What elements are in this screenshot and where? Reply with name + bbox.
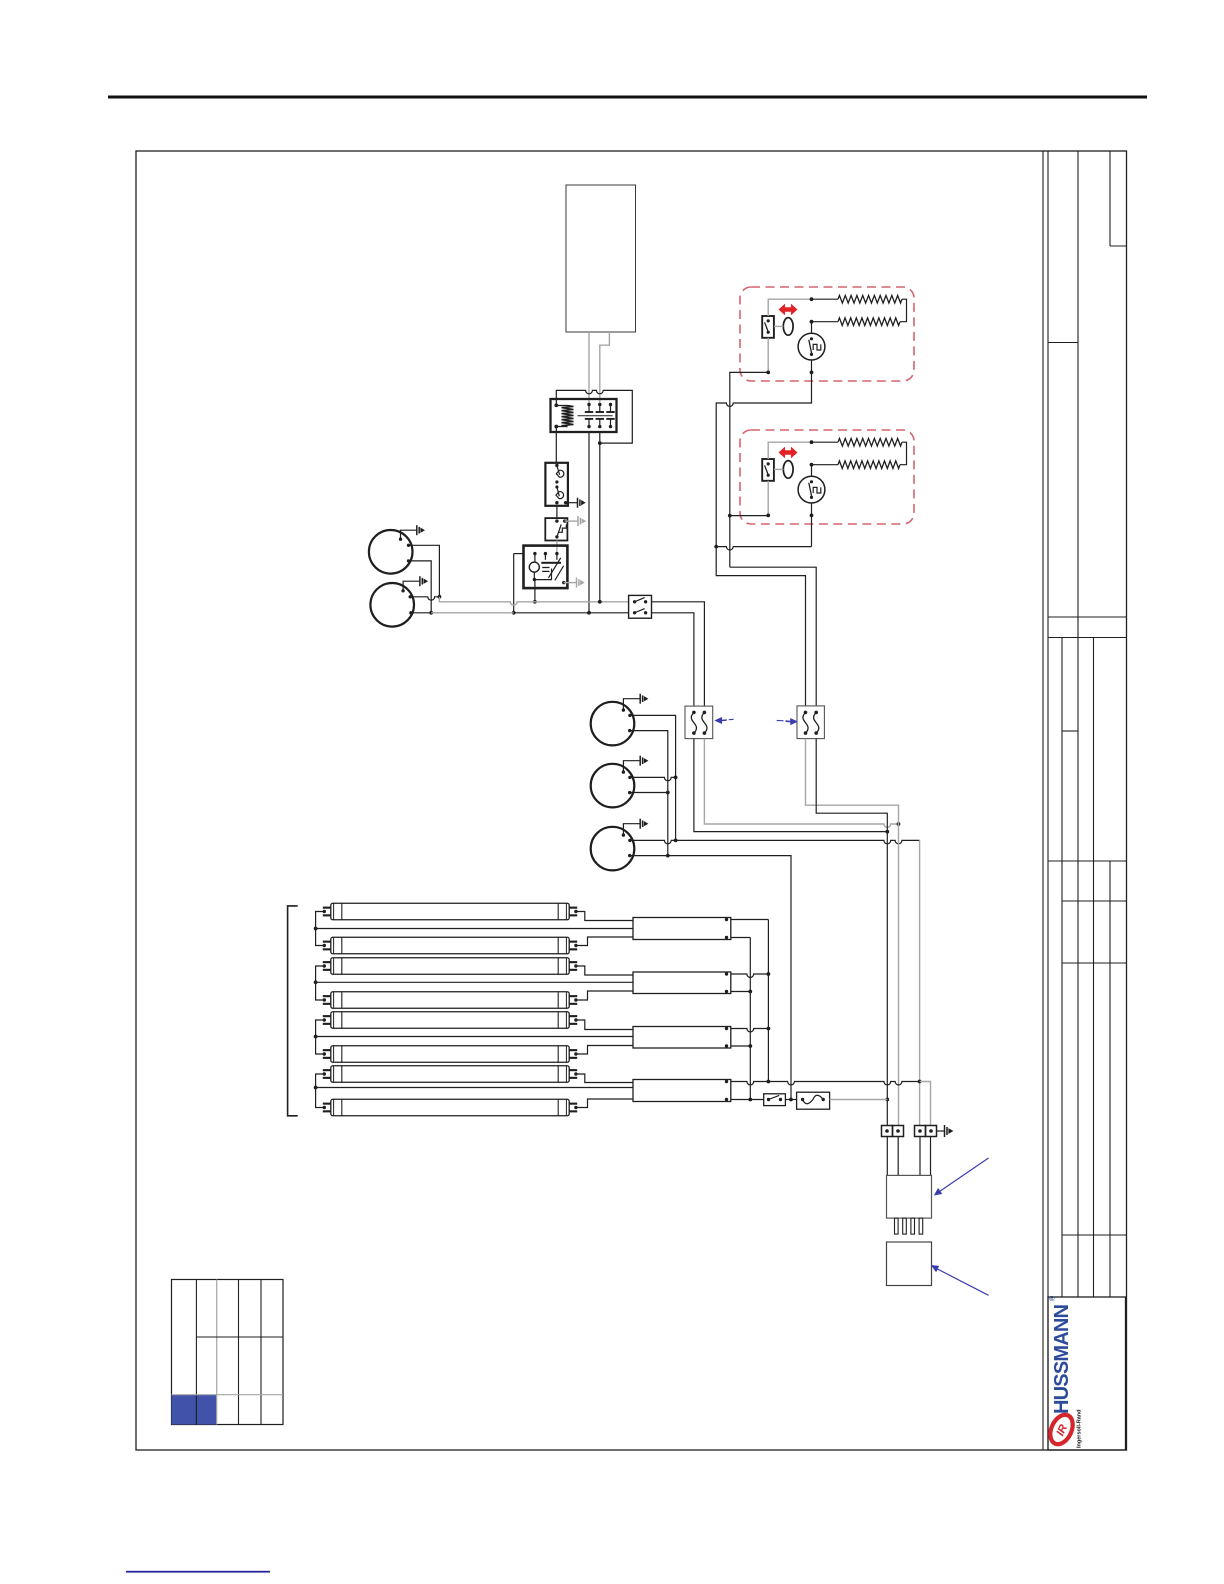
trunk wire L2 to terminal strip (gray) (898, 824, 900, 1126)
wire lamp T2 to ballast B1 (576, 937, 633, 946)
wire heater 2 to timer top 1 (812, 321, 839, 323)
ballast B3 feed bus (316, 1036, 633, 1038)
wire thermostat bulb to top bus (534, 580, 536, 602)
wire lamp T5 to ballast B3 (576, 1020, 633, 1030)
wire motor M3 common lead (630, 731, 668, 793)
fan motor M2 circle (370, 583, 414, 627)
ballast output bus 2 (bottoms) (749, 938, 751, 1100)
lamp T5 pins (323, 1015, 331, 1017)
revision table column 2 (gray) (216, 1280, 218, 1425)
title block row line y963 (1062, 962, 1127, 964)
wire motor M1 run lead (409, 545, 440, 597)
wire bulb row to heater 1 1 (812, 298, 839, 300)
thermostat contact plates (541, 562, 561, 564)
ballast B2 feed bus (316, 981, 633, 983)
wire motor M2 run lead (hops common) (410, 597, 439, 600)
wire switch to left connector pin A (652, 602, 705, 706)
fluorescent lamp T4 body (331, 992, 569, 1009)
title block logo cell border (1048, 1297, 1126, 1450)
lamp T6 pins (323, 1049, 331, 1051)
wire switch1 to trunk B (730, 372, 768, 567)
terminal block pair 1 (882, 1126, 893, 1137)
footer link line (blue) (126, 1571, 270, 1573)
revision table row line 2 (gray) (172, 1394, 284, 1396)
plug P2 contact 1 (804, 711, 808, 715)
wire relay coil to defrost termination switch (555, 427, 557, 463)
wire motor M5 run lead joins run bus and trunk (hops) (630, 840, 920, 843)
title block column line C (1093, 638, 1095, 1298)
ground at terminal block (937, 1130, 945, 1132)
blue arrow callout to outlet box (937, 1269, 989, 1296)
pressure switch S2 box (545, 518, 567, 540)
power cord plug housing (887, 1175, 932, 1218)
wire switch2 to trunk B (730, 515, 768, 517)
wire plug P2 pin 1 down (gray) (806, 739, 899, 824)
double switch upper contact (633, 600, 636, 603)
ground at evaporator fan motor M5 (623, 824, 640, 835)
fan feed bus bottom (gray+black) (431, 612, 514, 614)
defrost termination switch S1 box (762, 316, 774, 338)
ground at pressure switch (gray) (565, 520, 578, 522)
lamp T2 pins (323, 941, 331, 943)
defrost termination switch S2 box (762, 459, 774, 481)
ballast B1 box (633, 918, 731, 940)
wire lamp pair 2 left common (316, 966, 325, 1000)
wire switch top feed (gray) 2 (768, 442, 811, 459)
defrost heater assembly 1 enclosure (dashed) (740, 287, 914, 381)
svg-text:HUSSMANN: HUSSMANN (1051, 1304, 1073, 1414)
power cord plug prongs (895, 1218, 899, 1234)
wire switch top feed (gray) 1 (768, 299, 811, 316)
red double arrow (heater 1) (779, 304, 797, 315)
ground at evaporator fan motor M4 (623, 761, 640, 772)
ballast B1 feed bus (316, 928, 633, 930)
wire lamp return to ground terminal (gray) (920, 1082, 931, 1126)
wire controller output 2 (gray) (600, 332, 610, 405)
wire ballast B4 bottom output to lamp switch (731, 1099, 764, 1101)
wire ballast B2 bottom output (731, 991, 751, 993)
evaporator fan motor M3 circle (591, 702, 635, 746)
wire lamp pair 1 left common (316, 912, 325, 946)
wire ballast B1 bottom output (731, 937, 751, 939)
revision table column 4 (260, 1280, 262, 1425)
fluorescent lamp T7 body (331, 1066, 569, 1083)
wire lamp pair 3 left common (316, 1020, 325, 1054)
svg-text:Ingersoll-Rand: Ingersoll-Rand (1077, 1409, 1083, 1448)
ground at fan motor M1 (401, 530, 417, 539)
terminal block pair 2 (915, 1126, 926, 1137)
wire switch to left connector pin B (652, 613, 694, 706)
wire lamp switch to fuse (785, 1099, 796, 1101)
revision table row line 1 (196, 1336, 283, 1338)
wire motor M5 common lead to lamp feed (630, 856, 791, 1100)
fluorescent lamp T2 body (331, 937, 569, 954)
wire lamp T3 to ballast B2 (576, 966, 633, 975)
heater element R1b (838, 318, 900, 326)
revision table column 1 (195, 1280, 197, 1425)
electronic controller box U1 (566, 185, 636, 332)
wire motor M4 run lead (hops common bus) (630, 777, 676, 780)
relay coil (562, 406, 574, 427)
wire switch bottom lead (gray) 1 (767, 338, 769, 373)
ballast B4 feed bus (316, 1087, 633, 1089)
wire timer bottom lead 1 (811, 360, 813, 372)
wire heater 2 to timer top 2 (812, 464, 839, 466)
title block row line y901 (1062, 900, 1127, 902)
ballast B4 box (633, 1080, 731, 1102)
lamp T8 pins (323, 1103, 331, 1105)
plug P1 contact 2 (703, 711, 707, 715)
wire ballast B4 top output to trunk (hops) (731, 1082, 920, 1085)
lamp T1 pins (323, 907, 331, 909)
lamp T3 pins (323, 961, 331, 963)
wire lamp T1 to ballast B1 (576, 912, 633, 921)
title block column line B (1077, 151, 1079, 1297)
revision table highlighted cell (blue) (172, 1395, 217, 1425)
title block column line A (1061, 638, 1063, 1298)
wire S2 to thermostat (gray) (556, 541, 558, 554)
evap fan common bus (667, 793, 669, 856)
wall outlet box (887, 1242, 932, 1286)
blue arrow callout to plug P1 (715, 717, 722, 723)
wire ballast B2 top output (hops bus2) (731, 974, 769, 977)
title block row line y861 (1048, 860, 1127, 862)
wire bulb row to heater 1 2 (812, 441, 839, 443)
plug P2 contact 2 (814, 711, 818, 715)
revision table column 3 (238, 1280, 240, 1425)
evap fan run bus (675, 777, 677, 840)
wire lamp T8 to ballast B4 (576, 1099, 633, 1108)
defrost heater assembly 2 enclosure (dashed) (740, 430, 914, 524)
ground at defrost termination switch (566, 502, 578, 504)
wire timer top lead 1 (811, 322, 813, 334)
title block column line D (1109, 151, 1111, 1297)
wire lamp T7 to ballast B4 (576, 1074, 633, 1083)
blue arrow callout to plug housing (940, 1158, 989, 1192)
defrost termination thermostat S1 box (545, 463, 568, 506)
fan feed bus bottom black segment (514, 612, 629, 614)
wire fuse to trunk L1 (gray) (830, 1099, 888, 1101)
thermostat control TH1 box (524, 546, 568, 589)
lamp fuse box (797, 1092, 830, 1109)
wire plug P1 pin B to terminal 1 (694, 739, 887, 832)
wire thermostat to bottom bus (hops gray bus) (513, 554, 515, 613)
title block row line y342 (1048, 342, 1078, 344)
wire relay bypass loop (556, 390, 632, 443)
wire timer bottom lead 2 (811, 503, 813, 515)
sensor bulb (oval) 1 (783, 318, 793, 336)
wire joining heater ends 2 (900, 442, 907, 465)
lamp T7 pins (323, 1069, 331, 1071)
disconnect plug P1 (left) box (685, 706, 713, 739)
fluorescent lamp T8 body (331, 1099, 569, 1116)
fluorescent lamp T1 body (331, 903, 569, 920)
wire switch to bulb 1 (774, 325, 783, 327)
relay contact 3 (609, 403, 612, 406)
title block row line y731 (1062, 730, 1078, 732)
title block separator line (1042, 151, 1044, 1450)
wire ballast B3 top output (hops bus2) (731, 1029, 769, 1032)
wire lamp T6 to ballast B3 (576, 1046, 633, 1055)
title block row line y246 (1110, 245, 1127, 247)
thermostat adjustment slashes (549, 558, 561, 578)
wire thermostat left terminal (514, 553, 524, 555)
heater element R2a (838, 438, 902, 446)
wire controller output 1 (gray) (588, 332, 590, 405)
title block left border (1047, 151, 1049, 1450)
wire lamp pair 4 left common (316, 1074, 325, 1108)
evaporator fan motor M4 circle (591, 764, 635, 808)
trunk wire L1 to lamp fuse junction (886, 832, 888, 1126)
wire ballast B3 bottom output (731, 1045, 751, 1047)
title block row line y617 (1048, 616, 1127, 618)
defrost timer/thermostat T1 circle (798, 333, 825, 360)
lamp T4 pins (323, 995, 331, 997)
thermostat internal wires (534, 554, 536, 563)
wire switch to bulb 2 (774, 468, 783, 470)
relay actuator bar (578, 415, 613, 417)
wire trunk A junction to timer2 (716, 547, 811, 550)
thermostat sensing bulb circle (529, 562, 539, 572)
wire ballast B1 top output (731, 919, 769, 921)
svg-text:®: ® (1049, 1295, 1057, 1301)
ground at evaporator fan motor M3 (623, 699, 640, 710)
wire motor M2 common lead (411, 612, 431, 614)
drawing border frame (136, 151, 1127, 1450)
wires terminal blocks to cord plug (887, 1137, 930, 1176)
lamp group bracket (288, 906, 298, 1116)
relay contact 2 (598, 403, 601, 406)
wire trunk A to right connector pin1 (716, 547, 805, 707)
ballast B2 box (633, 972, 731, 994)
fluorescent lamp T5 body (331, 1012, 569, 1029)
relay K1 box (551, 399, 617, 432)
wire lamp T4 to ballast B2 (576, 991, 633, 1000)
fan feed bus top (gray) (439, 597, 628, 605)
wire plug P1 pin A to terminal 2 (gray, hops) (704, 739, 898, 828)
ballast B3 box (633, 1027, 731, 1049)
wire motor M1 common lead (409, 561, 432, 613)
wire motor M3 run lead (630, 715, 676, 777)
ground at thermostat (gray) (562, 581, 565, 584)
relay coil bottom lead (556, 426, 567, 428)
wire trunk B to right connector pin2 (730, 567, 816, 706)
wire motor M4 common lead (630, 792, 668, 794)
wire joining heater ends 1 (900, 299, 907, 322)
disconnect plug P2 (right) box (797, 706, 824, 739)
ground at fan motor M2 (403, 581, 420, 591)
ballast output bus 1 (tops) (767, 920, 769, 1082)
heater element R2b (838, 461, 900, 469)
relay contact 1 (587, 403, 590, 406)
wire plug P2 pin 2 down (816, 739, 887, 832)
wire timer2 bottom to junction (811, 516, 813, 547)
Ingersoll-Rand IR roundel logo (1046, 1411, 1077, 1448)
wire S1 to pressure switch S2 (556, 506, 558, 518)
wire timer top lead 2 (811, 465, 813, 477)
wire relay contact1 to fan/light bus (588, 433, 590, 613)
wire relay contact2 to fan/light bus (599, 433, 601, 602)
fluorescent lamp T3 body (331, 958, 569, 975)
sensor bulb (oval) 2 (783, 461, 793, 479)
fan motor M1 circle (369, 530, 413, 574)
lamp switch box (764, 1094, 786, 1106)
wire timer1 to trunk A (716, 372, 811, 546)
defrost timer/thermostat T2 circle (798, 476, 825, 503)
title block row line y1235 (1062, 1234, 1127, 1236)
trunk ground wire down (gray) (919, 840, 921, 1125)
fan/light double switch box (629, 595, 652, 618)
title block row line y637 (1048, 637, 1127, 639)
red double arrow (heater 2) (779, 447, 797, 458)
wire switch bottom lead (gray) 2 (767, 481, 769, 516)
plug P1 contact 1 (692, 711, 696, 715)
double switch lower contact (633, 611, 636, 614)
evaporator fan motor M5 circle (591, 827, 635, 871)
blue arrow callout to plug P2 (791, 718, 798, 724)
page header rule (108, 96, 1147, 99)
revision table outer box (172, 1280, 284, 1425)
fluorescent lamp T6 body (331, 1046, 569, 1063)
heater element R1a (838, 295, 902, 303)
relay coil top lead (556, 405, 567, 407)
